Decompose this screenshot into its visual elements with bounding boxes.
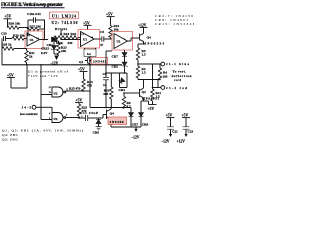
- svg-text:+12V: +12V: [138, 23, 147, 27]
- resistor R11 1.5: [148, 64, 162, 111]
- resistor R29 10k: [12, 34, 27, 41]
- svg-text:2N5485: 2N5485: [93, 60, 107, 64]
- NAND gate U2b: [41, 107, 66, 122]
- transistor Q4 2N6488: [103, 107, 114, 127]
- NAND U2a pin numbers: [49, 87, 70, 94]
- svg-text:330: 330: [68, 41, 73, 45]
- diode CR1 pair: [47, 37, 81, 47]
- svg-text:+12V: +12V: [177, 140, 186, 144]
- svg-text:U2: U2: [54, 117, 58, 121]
- IC note U1: LM324 red box: [50, 12, 79, 19]
- resistor R10 10k: [109, 24, 120, 39]
- power +12V: [138, 23, 148, 33]
- note To vert. deflection coil: [172, 70, 192, 83]
- svg-text:1k: 1k: [29, 54, 33, 58]
- bus wire main: [2, 64, 122, 66]
- svg-text:CR1: CR1: [47, 43, 54, 47]
- svg-text:Q2: Q2: [142, 90, 147, 94]
- svg-text:U1: U1: [83, 38, 87, 42]
- resistor R27 1M: [27, 20, 45, 31]
- wire bottom horizontal: [90, 107, 131, 109]
- wire to R4 bottom: [138, 79, 160, 81]
- capacitor C19a 0.01: [27, 12, 45, 40]
- capacitor C20: [1, 32, 12, 42]
- diode CR7: [112, 50, 128, 62]
- svg-text:Q4: Q4: [110, 112, 115, 116]
- wire Q1 column: [89, 65, 91, 108]
- svg-text:500k: 500k: [56, 41, 63, 45]
- svg-text:J4-5: J4-5: [22, 106, 32, 110]
- node J1-1 wire: [137, 63, 161, 65]
- op-amp U1b red box: [78, 30, 100, 49]
- svg-text:low-contrast: low-contrast: [20, 112, 38, 116]
- svg-text:1.5: 1.5: [142, 52, 146, 56]
- zener CR2: [112, 62, 128, 74]
- op-amp U1a output wire: [40, 39, 48, 41]
- svg-text:Q4: Q4: [147, 36, 152, 40]
- resistor R5 300: [103, 73, 113, 108]
- resistor R3 1.5: [136, 48, 146, 66]
- svg-text:U1: U1: [117, 40, 121, 44]
- svg-text:C5: C5: [100, 30, 104, 34]
- svg-text:1.5: 1.5: [156, 95, 160, 99]
- title underline: [1, 7, 65, 9]
- svg-text:CR7: CR7: [112, 55, 119, 59]
- svg-text:U2: U2: [54, 91, 58, 95]
- svg-text:10k: 10k: [114, 28, 119, 32]
- NAND U2b output wire: [66, 117, 80, 119]
- zener CR15: [41, 41, 57, 55]
- transistor Q4 MPS6534: [138, 34, 164, 49]
- svg-text:6.2: 6.2: [87, 52, 91, 56]
- svg-text:R30 10k: R30 10k: [9, 22, 21, 26]
- terminal J1-1 blue: [161, 62, 190, 66]
- svg-text:+5V: +5V: [106, 13, 113, 17]
- svg-text:+5V: +5V: [78, 67, 85, 71]
- op-amp U1c output wire to Q4: [128, 38, 140, 41]
- wire gate input rail: [40, 65, 42, 120]
- diode CR7 bottom: [129, 108, 139, 128]
- op-amp U1c red box: [112, 32, 133, 51]
- diode CR8 bottom: [139, 101, 149, 127]
- svg-text:C21: C21: [172, 130, 178, 134]
- pot Bright R19: [55, 27, 77, 37]
- wire node left vertical: [27, 20, 29, 36]
- wire Q4 emitter row: [111, 126, 141, 128]
- svg-text:C20: C20: [1, 32, 7, 36]
- svg-text:U1 is powered off of: U1 is powered off of: [28, 70, 69, 74]
- power -12V bottom: [131, 127, 140, 140]
- transistor Q1 2N5485: [79, 57, 91, 66]
- svg-text:100: 100: [163, 74, 168, 78]
- svg-text:CR6: CR6: [93, 131, 100, 135]
- resistor R28 1k: [2, 43, 27, 51]
- capacitor C11 33uF: [79, 111, 103, 121]
- svg-text:+12V and −12V: +12V and −12V: [28, 74, 59, 78]
- svg-text:300: 300: [103, 92, 108, 96]
- svg-text:CR2: CR2: [112, 64, 119, 68]
- terminal J4-5: [20, 105, 52, 115]
- wire left rail down to bus: [1, 39, 3, 66]
- svg-text:−12V: −12V: [131, 136, 140, 140]
- svg-text:R22: R22: [71, 32, 77, 36]
- op-amp U1c: [114, 34, 128, 49]
- op-amp U1a red box: [25, 31, 43, 49]
- wire mid horizontal: [106, 72, 127, 74]
- red box 2N5485: [92, 58, 108, 65]
- svg-text:6.2V: 6.2V: [41, 51, 48, 55]
- svg-text:CR4: CR4: [119, 88, 126, 92]
- svg-text:+5V: +5V: [182, 114, 189, 118]
- op-amp U1b: [81, 32, 95, 47]
- resistor R23 10k: [54, 41, 67, 56]
- svg-text:U2: 74LS36: U2: 74LS36: [52, 21, 78, 25]
- diode CR4 loop: [119, 73, 128, 92]
- power -12V mid-left: [50, 56, 59, 66]
- svg-text:47: 47: [100, 43, 104, 47]
- power +5V loop left: [7, 65, 27, 88]
- resistor R21 1k: [25, 49, 35, 66]
- svg-text:+5V: +5V: [7, 73, 14, 77]
- capacitor C21 branch: [161, 114, 178, 144]
- svg-text:4.7: 4.7: [127, 105, 131, 109]
- wire Q2 emitter to +5V bar: [144, 101, 149, 105]
- NAND gate U2a: [41, 87, 66, 97]
- capacitor C12 box: [84, 48, 96, 58]
- svg-text:Q1: Q1: [79, 60, 84, 64]
- svg-text:R29 10k: R29 10k: [13, 34, 25, 38]
- svg-text:−12V: −12V: [161, 140, 170, 144]
- resistor R24 470: [82, 79, 93, 91]
- svg-text:+5V: +5V: [83, 21, 90, 25]
- op-amp U1b output wire: [94, 38, 101, 40]
- svg-text:C23: C23: [188, 130, 194, 134]
- resistor R30 10k: [7, 22, 28, 30]
- red box 2N6488: [108, 117, 127, 125]
- capacitor C5 47: [100, 30, 112, 47]
- svg-text:Q4: EBC: Q4: EBC: [2, 133, 19, 137]
- svg-text:R25 470: R25 470: [69, 86, 81, 90]
- svg-text:Bright: Bright: [55, 27, 68, 31]
- resistor R19 500k / R22 330: [52, 36, 80, 45]
- resistor R2 1.5: [136, 66, 146, 80]
- NAND U2a output wire: [66, 90, 90, 92]
- terminal J1-2 red: [153, 80, 188, 90]
- capacitor C6 12: [103, 51, 113, 108]
- svg-text:U1: U1: [30, 38, 34, 42]
- svg-text:C19a 0.01: C19a 0.01: [27, 12, 41, 16]
- power +5V above R24: [78, 67, 88, 79]
- svg-text:10k: 10k: [61, 49, 66, 53]
- op-amp U1a: [27, 33, 40, 46]
- power +5V above R10: [106, 13, 115, 26]
- svg-text:R28 1k: R28 1k: [2, 43, 12, 47]
- resistor R6 4.7: [122, 92, 131, 108]
- svg-text:+5V: +5V: [76, 99, 83, 103]
- svg-text:CR7: CR7: [132, 122, 139, 126]
- svg-text:Q5: DSG: Q5: DSG: [2, 138, 18, 142]
- resistor R4 100: [158, 63, 167, 80]
- NAND U2b pin numbers: [49, 113, 68, 120]
- power +5V top-left: [4, 15, 12, 28]
- resistor R23 470: [77, 104, 87, 119]
- diode CR6 to ground: [93, 118, 102, 135]
- svg-text:C6: C6: [103, 72, 107, 76]
- svg-text:CR15: CR15: [41, 46, 49, 50]
- svg-text:J1-1 blue: J1-1 blue: [166, 62, 190, 66]
- svg-text:R19: R19: [64, 32, 70, 36]
- svg-text:2N6488: 2N6488: [110, 120, 124, 124]
- svg-text:CR8: CR8: [142, 122, 149, 126]
- svg-text:+5V: +5V: [5, 15, 12, 19]
- transistor Q2 MPS6531: [127, 80, 159, 102]
- svg-text:1.5: 1.5: [142, 70, 146, 74]
- svg-text:+5V: +5V: [148, 107, 155, 111]
- capacitor C23 branch: [177, 114, 194, 144]
- power +5V above R23: [75, 99, 83, 105]
- power +5V above op-amp B: [83, 21, 92, 29]
- svg-text:U1: LM324: U1: LM324: [52, 14, 76, 18]
- svg-text:+5V: +5V: [166, 114, 173, 118]
- svg-text:coil: coil: [174, 78, 181, 82]
